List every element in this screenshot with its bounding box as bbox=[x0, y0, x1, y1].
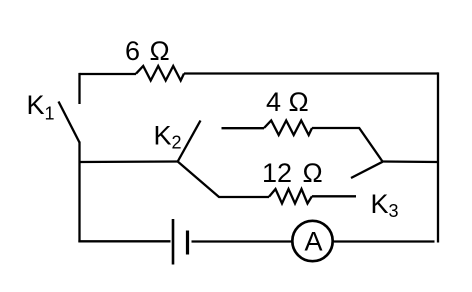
wire left upper vertical bbox=[78, 73, 80, 104]
wire K2 to 12 ohm diagonal bbox=[178, 162, 269, 198]
switch K3 blade bbox=[351, 162, 383, 178]
resistor R2 4 ohm bbox=[264, 121, 312, 136]
wire battery to ammeter bbox=[192, 240, 292, 242]
wire 4 ohm branch left bbox=[222, 127, 265, 129]
battery long plate bbox=[172, 219, 175, 265]
svg-text:K2: K2 bbox=[154, 121, 182, 153]
resistor R1 6 ohm bbox=[136, 66, 184, 81]
svg-text:12 Ω: 12 Ω bbox=[262, 158, 323, 188]
svg-text:4 Ω: 4 Ω bbox=[266, 87, 309, 117]
svg-text:6 Ω: 6 Ω bbox=[125, 36, 170, 66]
svg-text:A: A bbox=[305, 227, 323, 257]
wire ammeter to right bbox=[334, 240, 435, 242]
wire middle branch from left vertical to K2 bbox=[80, 160, 178, 163]
wire top-left horizontal bbox=[80, 73, 137, 75]
ammeter A bbox=[292, 221, 332, 261]
svg-text:K1: K1 bbox=[27, 90, 55, 124]
wire left lower vertical bbox=[78, 142, 80, 243]
wire top-right horizontal bbox=[184, 72, 438, 74]
wire 12 ohm branch right open end bbox=[312, 195, 356, 197]
switch K1 blade bbox=[59, 102, 80, 143]
svg-text:K3: K3 bbox=[371, 189, 399, 221]
switch K2 blade bbox=[178, 121, 201, 162]
wire right vertical bbox=[437, 72, 439, 242]
battery short plate bbox=[186, 231, 189, 255]
resistor R3 12 ohm bbox=[269, 189, 312, 204]
wire bottom left bbox=[78, 240, 170, 242]
wire node to right vertical bbox=[383, 160, 438, 163]
wire 4 ohm branch right with bend down to node bbox=[312, 128, 383, 162]
